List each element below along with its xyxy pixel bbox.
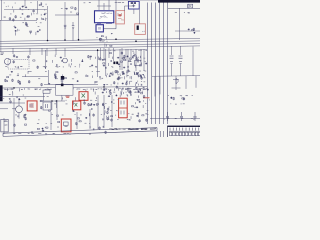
wire: verticals joining top-left parts to rails — [25, 0, 79, 41]
label band: component designators above lower rail — [4, 88, 146, 96]
component cluster: chroma parts row — [4, 71, 145, 86]
junction blob at rail — [61, 84, 64, 87]
alignment box (dashed) around mid-left stage — [8, 60, 29, 70]
wire: chroma row link — [22, 75, 48, 77]
IC box: jungle IC bottom right — [168, 126, 201, 138]
wire stubs below supply rails — [13, 48, 65, 57]
wire from CN103 to IC network — [103, 11, 116, 29]
highlight box: capacitor C301 (red) — [79, 92, 88, 101]
component cluster: video stage row — [5, 54, 147, 69]
transistor Q102 (blue highlight box, top) — [128, 1, 139, 9]
capacitor C801 near mains bar — [188, 4, 193, 8]
component cluster: dark parts right of highlight boxes — [89, 103, 98, 110]
white service box left of red highlights — [56, 85, 74, 95]
transistor T2 with round case (left, above CN1) — [0, 98, 22, 119]
label at left edge mid sheet — [1, 52, 4, 55]
connector CN1 (bottom left) — [1, 119, 8, 132]
capacitor C12 on riser x65 — [64, 25, 67, 28]
wire: branch below mains bar — [168, 5, 200, 41]
junction dots on rails — [13, 38, 137, 88]
wire: left lower links — [0, 97, 45, 103]
wire: feeders dropping to bottom bus box — [4, 95, 112, 134]
wire bus: four horizontal supply rails across sheet — [0, 38, 200, 49]
solid pads mid right — [113, 62, 115, 65]
left rail bar: solid bar at left edge — [0, 85, 3, 101]
component cluster below T2 — [15, 114, 26, 120]
transistor T5 round case mid — [63, 58, 68, 63]
component cluster: left below lower rail — [3, 94, 26, 103]
wire: verticals near lower link — [43, 70, 62, 110]
highlight box: capacitor C302 (red) — [73, 101, 81, 110]
component cluster: right lower capacitors — [168, 95, 193, 104]
wire: horizontal rail lower sheet — [0, 87, 147, 88]
component cluster: between verticals top middle — [61, 7, 79, 14]
vertical bus wires: harness to CRT board (right) — [148, 3, 168, 125]
component cluster: band above regulator — [103, 84, 149, 97]
label row above bottom-right IC — [164, 118, 195, 119]
wire: verticals through video row — [98, 49, 144, 77]
wire: lower link at y101 — [40, 100, 65, 102]
capacitors above jungle IC — [166, 112, 197, 121]
component cluster: audio parts bottom middle — [14, 120, 107, 135]
highlight box: regulator IC304 (red, two cells) — [119, 98, 128, 118]
connector CN103 (blue highlight box, small) — [96, 25, 103, 32]
diode on right rail — [173, 78, 179, 84]
wire: top-left feeder — [0, 0, 79, 21]
component cluster: right of mid rails — [175, 12, 196, 33]
wire: right-hand rail to deflection — [152, 75, 200, 78]
wire: drop with arrow mid-left — [45, 50, 47, 69]
component cluster: sync stage lower middle — [40, 96, 116, 119]
component cluster: below IC U101 — [96, 33, 112, 47]
wire: drops from right rail — [172, 76, 197, 90]
wire: drops from rails into mid-right block — [101, 48, 141, 70]
capacitor C21 right of bus — [170, 46, 174, 76]
component cluster: left of regulator — [102, 99, 119, 122]
highlight box: IC305 (red, bottom) — [61, 119, 71, 132]
highlight box: transistor T303 (red) — [27, 101, 37, 111]
labels above bottom bus box mid — [107, 119, 130, 120]
wire: rail into anode cap area — [44, 83, 98, 85]
red designator text left of highlight boxes — [66, 95, 70, 98]
wire: left edge riser — [0, 20, 2, 52]
labels above diode D104 — [115, 1, 124, 4]
transistor T4 round case mid left — [4, 58, 10, 64]
component cluster: IF/tuner parts top left — [4, 2, 47, 21]
bottom signal bus box across sheet — [3, 128, 157, 137]
red marking near bus — [143, 97, 150, 98]
wire: horizontal rail mid sheet — [0, 50, 147, 52]
sheet border line top — [0, 0, 158, 2]
wire: verticals top right of IC U101 — [116, 0, 139, 24]
component cluster: mid-right lower block — [102, 69, 147, 86]
diode D104 (pink highlight box) — [116, 11, 125, 24]
capacitor C13 on riser x73 — [72, 22, 75, 41]
component cluster: mid-right between rails — [102, 50, 148, 68]
wire: right vertical to lower rail — [155, 47, 193, 97]
transistor Q105 (red highlight box) — [135, 24, 146, 35]
labels left of risers — [42, 19, 47, 20]
component cluster: mid-right around regulator — [102, 88, 148, 98]
wire: bus tails below bottom box — [158, 131, 164, 137]
labels right of tuner block — [84, 2, 91, 3]
capacitor C22 right of bus — [179, 46, 183, 76]
wire: stubs above IC U101 — [97, 0, 111, 10]
capacitor on drop wire at x62 — [61, 78, 64, 84]
wire: right-top component row — [175, 30, 200, 32]
label box near lower rail — [43, 90, 50, 93]
component box below link — [43, 102, 51, 110]
relay box mid right — [135, 61, 142, 66]
component cluster: below tuner parts — [14, 22, 42, 36]
junction: solid pad mid sheet — [61, 76, 64, 80]
wire: link above bottom-right IC — [150, 118, 200, 120]
component cluster: around regulator right side — [128, 99, 150, 122]
labels inside bottom bus box — [13, 128, 156, 134]
wire: upper row link top-left — [4, 9, 47, 11]
mains bar: solid bar top right edge — [158, 0, 200, 3]
IC U101 (blue highlight box) — [95, 11, 114, 23]
